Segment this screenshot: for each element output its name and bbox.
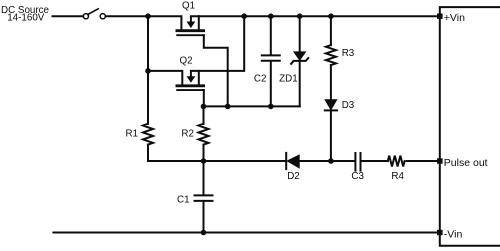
svg-text:Q1: Q1 [182,1,195,12]
svg-text:C3: C3 [351,171,364,182]
svg-text:D3: D3 [342,100,355,111]
svg-text:14-160V: 14-160V [7,12,45,23]
svg-text:Pulse out: Pulse out [444,157,488,169]
svg-text:Q2: Q2 [179,55,192,66]
svg-text:C2: C2 [254,73,267,84]
svg-text:R2: R2 [181,129,194,140]
svg-text:R3: R3 [342,48,355,59]
svg-text:ZD1: ZD1 [279,73,298,84]
svg-text:D2: D2 [287,171,300,182]
svg-text:R4: R4 [391,171,404,182]
svg-text:-Vin: -Vin [444,228,463,240]
svg-text:R1: R1 [126,129,139,140]
svg-text:+Vin: +Vin [444,12,465,24]
svg-text:C1: C1 [177,195,190,206]
